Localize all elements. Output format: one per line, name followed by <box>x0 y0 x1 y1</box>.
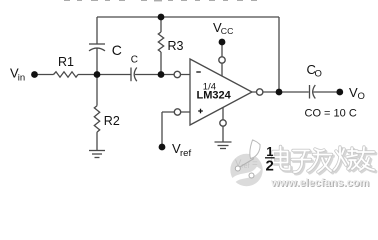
svg-text:O: O <box>315 69 322 80</box>
svg-text:R3: R3 <box>168 39 184 53</box>
svg-text:www.elecfans.com: www.elecfans.com <box>270 177 369 189</box>
svg-text:C: C <box>112 42 122 58</box>
svg-text:R1: R1 <box>58 55 74 69</box>
svg-text:C: C <box>131 55 138 66</box>
svg-text:ref: ref <box>180 148 191 159</box>
svg-text:R2: R2 <box>104 114 120 128</box>
svg-text:in: in <box>18 73 25 84</box>
svg-text:CC: CC <box>221 26 234 36</box>
svg-text:CO = 10 C: CO = 10 C <box>305 108 357 120</box>
svg-text:O: O <box>358 91 365 102</box>
svg-text:LM324: LM324 <box>197 90 232 102</box>
svg-text:2: 2 <box>266 158 274 175</box>
